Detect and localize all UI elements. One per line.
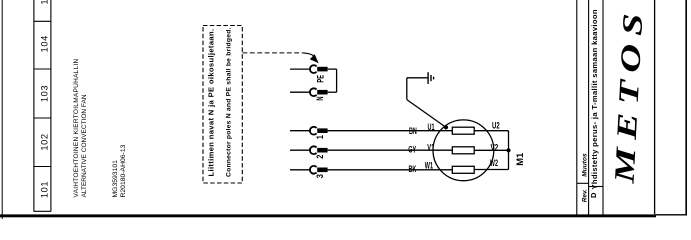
svg-text:MG3593101: MG3593101 <box>112 160 119 198</box>
svg-text:M1: M1 <box>515 153 525 166</box>
title block: line after METOS box <box>654 0 656 214</box>
ground symbol bar 3 <box>433 77 435 80</box>
svg-text:D: D <box>589 192 598 198</box>
connector pole N: wire stub <box>290 91 311 93</box>
connector pole 1: socket arc <box>310 127 317 135</box>
svg-text:104: 104 <box>40 35 50 52</box>
junction dot on U1 wire <box>444 125 448 129</box>
connector pole 3: socket arc <box>310 166 317 174</box>
wire U2 <box>474 130 508 132</box>
svg-text:102: 102 <box>40 133 50 150</box>
svg-text:BK: BK <box>409 164 417 174</box>
connector pole N: pin <box>317 90 327 95</box>
star point bus wire <box>508 131 510 170</box>
svg-text:105: 105 <box>40 0 50 5</box>
leader arrowhead <box>310 54 319 63</box>
wire-number ruler strip line A <box>33 0 35 212</box>
star point junction dot <box>506 148 510 152</box>
svg-text:Rev.: Rev. <box>581 189 588 202</box>
svg-text:BN: BN <box>409 126 417 136</box>
wire PE to bridge <box>328 68 337 70</box>
title block: D/text divider <box>589 186 603 188</box>
svg-text:U1: U1 <box>428 122 435 132</box>
svg-text:V1: V1 <box>427 143 434 153</box>
title block: line after Rev/Muutos row <box>588 0 590 215</box>
leader curve into arrow <box>303 53 315 57</box>
wire BN pole1 to motor U1 <box>328 130 453 132</box>
ruler cell divider <box>34 166 51 168</box>
motor M1 circle <box>433 120 494 181</box>
svg-text:W2: W2 <box>490 158 498 168</box>
ground symbol bar 2 <box>430 75 432 81</box>
svg-text:R20180-AH06-13: R20180-AH06-13 <box>120 144 127 197</box>
svg-text:N: N <box>315 96 325 100</box>
earth branch vertical wire <box>406 78 408 100</box>
ground symbol bar 1 <box>427 72 429 84</box>
bridge wire PE-N <box>336 69 338 92</box>
svg-text:V2: V2 <box>491 143 499 153</box>
svg-text:103: 103 <box>40 85 50 102</box>
winding V1-V2 <box>452 147 474 154</box>
ruler cell divider <box>34 117 51 119</box>
svg-text:1: 1 <box>315 135 325 139</box>
wire GY pole2 to motor V1 <box>328 149 453 151</box>
earth branch diagonal wire <box>407 100 446 128</box>
earth branch horizontal wire <box>407 77 428 79</box>
wire V2 <box>474 149 508 151</box>
svg-text:GY: GY <box>408 144 416 154</box>
connector pole 1: wire stub <box>290 130 311 132</box>
wire N to bridge <box>328 91 337 93</box>
page frame: thick natural left edge band <box>0 214 656 217</box>
page frame: thin bottom segment under empty title box <box>655 214 687 216</box>
wire-number ruler strip line B <box>50 0 52 212</box>
connector pole 2: socket arc <box>310 146 317 154</box>
note box (dashed) <box>203 26 242 184</box>
connector pole 3: pin <box>317 168 327 173</box>
connector pole PE: wire stub <box>290 68 311 70</box>
connector pole 2: wire stub <box>290 149 311 151</box>
connector pole 3: wire stub <box>290 169 311 171</box>
svg-text:3: 3 <box>315 174 325 178</box>
svg-text:ALTERNATIVE CONVECTION FAN: ALTERNATIVE CONVECTION FAN <box>81 94 88 197</box>
ruler cell divider (strip end) <box>34 210 51 212</box>
wire BK pole3 to motor W1 <box>328 169 453 171</box>
title block: Rev/Muutos divider <box>577 182 589 184</box>
svg-text:PE: PE <box>316 75 326 83</box>
title block: line after D row <box>602 0 604 215</box>
connector pole N: socket arc <box>310 88 317 96</box>
svg-text:U2: U2 <box>492 121 500 131</box>
winding W1-W2 <box>452 166 474 173</box>
connector pole 2: pin <box>317 148 327 153</box>
svg-text:W1: W1 <box>425 161 433 171</box>
connector pole PE: socket arc <box>310 65 317 73</box>
page frame: natural bottom border <box>685 0 687 215</box>
ruler cell divider <box>34 20 51 22</box>
svg-text:Liittimen navat N ja PE oikosu: Liittimen navat N ja PE oikosuljetaan. <box>207 29 216 177</box>
ruler cell divider <box>34 68 51 70</box>
svg-text:101: 101 <box>40 181 50 198</box>
svg-text:VAIHTOEHTOINEN KIERTOILMAPUHAL: VAIHTOEHTOINEN KIERTOILMAPUHALLIN <box>73 58 80 197</box>
page frame: natural top border <box>1 0 3 219</box>
svg-text:Connector poles N and PE shall: Connector poles N and PE shall be bridge… <box>226 27 233 177</box>
svg-text:Muutos: Muutos <box>582 153 589 177</box>
svg-text:Yhdistetty perus- ja T-mallit: Yhdistetty perus- ja T-mallit samaan kaa… <box>590 9 599 189</box>
leader (dashed) from note box <box>243 52 304 54</box>
wire W2 <box>474 169 508 171</box>
connector pole 1: pin <box>317 128 327 133</box>
winding U1-U2 <box>452 127 474 134</box>
svg-text:2: 2 <box>315 154 325 158</box>
title block: top line <box>576 0 578 215</box>
connector pole PE: pin <box>317 67 327 72</box>
